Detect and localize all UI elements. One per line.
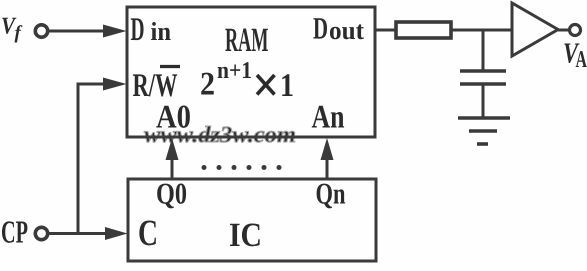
terminal Vf (35, 25, 47, 37)
ellipsis dots between address lines (202, 165, 282, 170)
svg-text:Qn: Qn (316, 178, 346, 211)
svg-text:A: A (576, 47, 587, 73)
label Dout (313, 11, 364, 46)
wire Qn to An (326, 158, 329, 179)
label VA (563, 38, 587, 74)
svg-text:n+1: n+1 (217, 58, 252, 84)
svg-text:D: D (313, 11, 328, 46)
wire CP to R/W (vertical riser) (77, 84, 80, 235)
ground (458, 118, 510, 144)
svg-text:RAM: RAM (225, 22, 269, 59)
arrow into An (321, 138, 334, 160)
wire Dout to resistor (375, 29, 397, 32)
terminal CP (35, 227, 47, 239)
svg-text:1: 1 (280, 68, 294, 104)
svg-text:in: in (151, 17, 172, 46)
wire junction to capacitor (482, 30, 485, 71)
arrow into R/W (103, 78, 127, 91)
label Vf (1, 14, 23, 44)
svg-text:A0: A0 (156, 100, 191, 136)
wire capacitor to ground (482, 84, 485, 118)
svg-text:out: out (329, 16, 364, 45)
svg-text:Q0: Q0 (156, 178, 187, 211)
svg-text:CP: CP (1, 214, 28, 250)
arrow into C (105, 227, 128, 240)
wire Vf to Din (48, 30, 106, 33)
wire resistor to buffer (451, 29, 512, 32)
capacitor C1 (460, 71, 506, 84)
IC block (counter) (128, 179, 376, 261)
label Din (131, 12, 172, 48)
op-amp buffer A1 (512, 3, 558, 56)
wire CP to C (48, 232, 108, 235)
svg-text:2: 2 (200, 67, 215, 103)
label 2^(n+1) x 1 (200, 58, 294, 104)
arrow into Din (103, 25, 127, 38)
RAM block U1 (127, 7, 375, 137)
wire horizontal into R/W (77, 83, 107, 86)
svg-text:f: f (15, 23, 23, 44)
arrow into A0 (166, 138, 179, 160)
watermark www.dz3w.com (144, 122, 296, 147)
svg-text:IC: IC (229, 217, 262, 254)
resistor R1 (396, 22, 451, 38)
wire Q0 to A0 (171, 158, 174, 179)
svg-text:D: D (131, 12, 145, 48)
wire buffer output (558, 29, 569, 32)
svg-text:An: An (312, 100, 345, 136)
label R/W (write bar) (133, 67, 181, 105)
terminal VA (570, 25, 581, 36)
svg-text:C: C (138, 213, 158, 254)
